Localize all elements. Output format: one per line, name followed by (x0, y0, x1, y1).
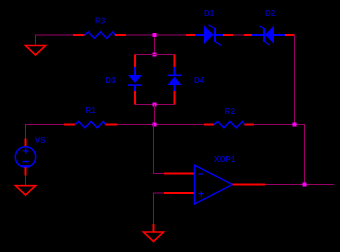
diode D4 (168, 55, 182, 105)
diode D3 (128, 55, 142, 105)
resistor R2 (204, 122, 254, 128)
svg-text:R1: R1 (86, 106, 97, 115)
wire: plus input corner down to ground (154, 193, 165, 224)
junction dot bridge bottom (153, 103, 157, 107)
op-amp XOP1 (195, 165, 233, 204)
ground GND3 (below op-amp) (144, 232, 164, 242)
diode D1 (186, 25, 233, 46)
wire: bridge bottom rail (135, 104, 175, 106)
wire: main net R2 to right junction and corner down (254, 125, 305, 185)
wire: bridge top rail (135, 54, 175, 56)
wire: main net R1 to R2 (117, 124, 204, 126)
svg-text:R3: R3 (95, 16, 106, 25)
junction dot R2 right (293, 123, 297, 127)
voltage source VS (15, 139, 35, 176)
svg-text:VS: VS (35, 136, 46, 145)
wire: VS bottom to ground GND2 (25, 176, 27, 186)
svg-text:D2: D2 (265, 9, 276, 18)
wire: ground GND3 pin (153, 224, 155, 232)
svg-text:D1: D1 (204, 9, 215, 18)
wire: minus input drop from main junction (154, 125, 165, 174)
wire: VS top pin up to main net (26, 125, 65, 139)
wire: bridge center vertical (bottom) (154, 105, 156, 125)
wire: top net D1 to D2 (233, 34, 244, 36)
diode D2 (244, 26, 295, 46)
resistor R1 (64, 122, 117, 128)
svg-text:XOP1: XOP1 (214, 155, 236, 164)
wire: op-amp output pin (233, 184, 266, 186)
wire: ground GND1 stem up and corner (36, 35, 74, 46)
svg-text:D4: D4 (194, 76, 205, 85)
wire: bridge center vertical (top) (154, 35, 156, 55)
svg-text:R2: R2 (225, 107, 236, 116)
ground GND2 (below VS) (16, 186, 36, 195)
junction dot bridge top (153, 53, 157, 57)
wire: output net to right edge (265, 184, 334, 186)
resistor R3 (73, 32, 126, 38)
wire: plus input pin (164, 192, 195, 194)
ground GND1 (top-left) (26, 46, 46, 56)
junction dot output (303, 183, 307, 187)
wire: right vertical D2 down to R2 junction (294, 35, 296, 125)
svg-text:D3: D3 (105, 76, 116, 85)
wire: top net R3 to D1 (126, 34, 186, 36)
junction dot main net center (153, 123, 157, 127)
junction dot top net (153, 33, 157, 37)
wire: minus input pin (164, 173, 195, 175)
